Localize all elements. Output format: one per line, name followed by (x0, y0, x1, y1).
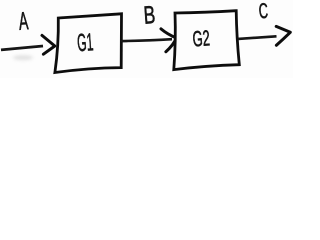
wire G1 to G2 shaft (121, 39, 173, 41)
block G2 box (174, 11, 240, 70)
svg-text:C: C (258, 0, 269, 23)
wire G2 output shaft (238, 36, 277, 39)
svg-text:G2: G2 (192, 25, 211, 51)
wire A input shaft (1, 46, 43, 50)
svg-text:B: B (143, 1, 157, 30)
arrowhead into G2 (161, 29, 176, 52)
arrowhead output C (276, 26, 290, 45)
svg-text:G1: G1 (76, 29, 94, 57)
scanner smudge bottom-left (13, 55, 33, 60)
arrowhead into G1 (42, 35, 55, 54)
block G1 box (55, 14, 122, 73)
